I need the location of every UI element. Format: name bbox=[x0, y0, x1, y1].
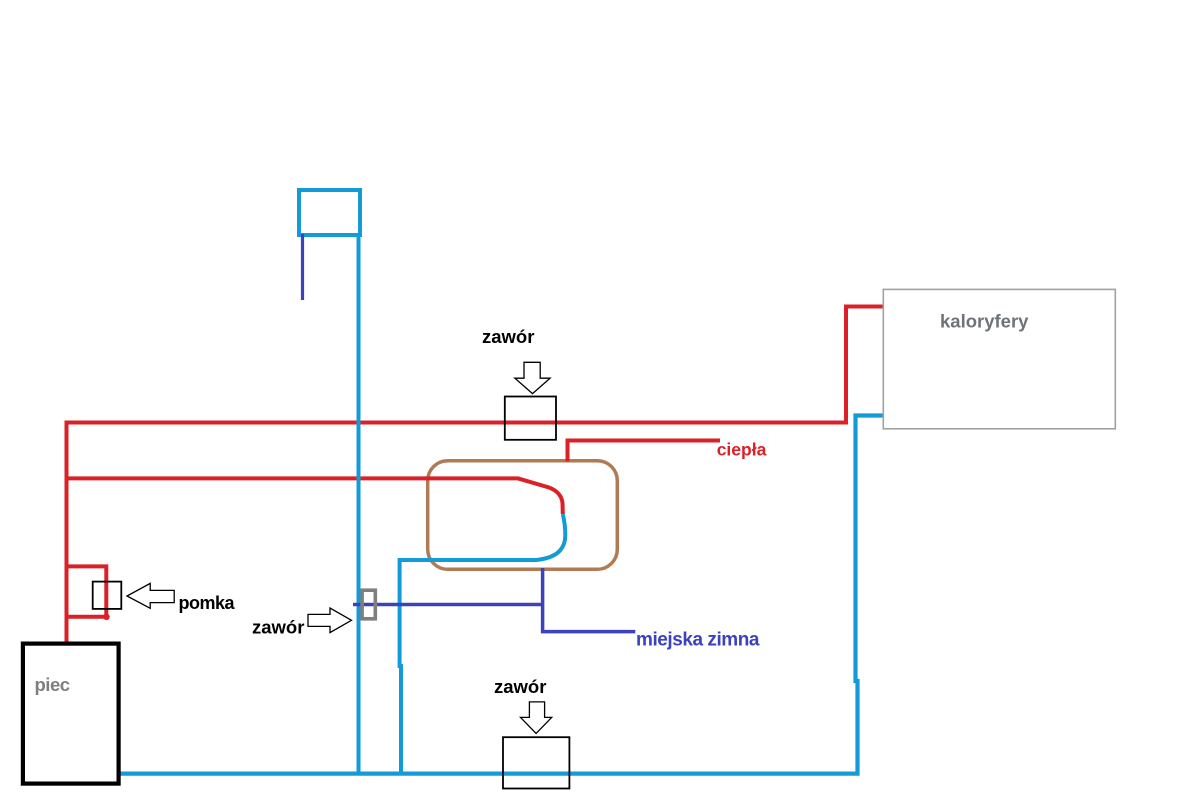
svg-text:kaloryfery: kaloryfery bbox=[940, 310, 1029, 331]
wire: red hot line into bathtub bbox=[67, 478, 563, 514]
svg-text:pomka: pomka bbox=[179, 593, 236, 613]
expansion tank (light blue box) bbox=[299, 190, 360, 235]
wire: dark blue miejska zimna horizontal bbox=[353, 603, 543, 607]
arrow: down arrow above valve V1 bbox=[515, 362, 550, 393]
wire: light blue cold feed vertical and bathtub curve bbox=[400, 514, 566, 773]
arrow: down arrow above valve V3 bbox=[521, 702, 552, 734]
wire: red pump bypass loop bbox=[67, 566, 107, 616]
valve box V3 (bottom) bbox=[503, 737, 569, 788]
arrow: left arrow pomka bbox=[127, 583, 174, 608]
wire: light blue main vertical from tank bbox=[357, 235, 361, 774]
wire: dark blue from bathtub drain to miejska zimna label bbox=[543, 568, 636, 632]
valve body (gray) on cold line bbox=[362, 590, 375, 619]
node: pump loop end dot bbox=[103, 614, 109, 620]
svg-text:piec: piec bbox=[35, 674, 70, 695]
wire: dark blue overflow stub under tank bbox=[301, 234, 304, 300]
svg-text:ciepła: ciepła bbox=[717, 440, 767, 460]
bathtub (brown rounded outline) bbox=[428, 461, 618, 570]
wire: light blue kaloryfery return down and bottom run bbox=[120, 416, 885, 774]
svg-text:zawór: zawór bbox=[252, 616, 304, 637]
piec box (black) bbox=[23, 644, 119, 784]
svg-text:miejska zimna: miejska zimna bbox=[636, 629, 760, 650]
svg-text:zawór: zawór bbox=[482, 326, 534, 347]
pump box (black square) bbox=[93, 582, 122, 609]
wire: red supply loop piec to kaloryfery bbox=[67, 307, 884, 642]
valve box V1 (top) bbox=[505, 397, 556, 440]
wire: red ciepla branch from bathtub bbox=[568, 441, 721, 462]
svg-text:zawór: zawór bbox=[494, 676, 546, 697]
arrow: right arrow zawor middle bbox=[308, 608, 352, 633]
kaloryfery box bbox=[883, 289, 1115, 428]
